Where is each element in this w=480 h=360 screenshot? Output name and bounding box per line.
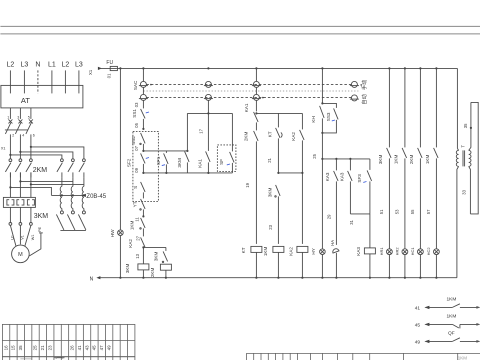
button SF1: [165, 151, 167, 153]
svg-text:41: 41: [415, 305, 421, 311]
svg-text:41: 41: [77, 345, 82, 350]
contactor 3KM star short bar: [60, 229, 86, 231]
motor lead wires: [10, 226, 16, 246]
node wire branch to KT/KA2: [255, 112, 257, 114]
svg-text:51: 51: [379, 209, 384, 214]
node 25: [321, 133, 323, 159]
wire crossover phase2 to reactor2: [20, 180, 73, 182]
reactor ZOB-45 label: [82, 194, 86, 197]
switch SS2: [141, 133, 146, 144]
coil KA3: [369, 214, 371, 248]
svg-text:L3: L3: [21, 61, 29, 68]
selector SAC contacts column 3: [253, 81, 259, 87]
node 07: [142, 150, 144, 152]
svg-text:35: 35: [18, 345, 23, 350]
lamp HR2: [402, 249, 408, 255]
svg-text:3KM: 3KM: [153, 252, 158, 262]
node 13: [142, 247, 144, 264]
contact KA3 hold: [349, 159, 351, 171]
svg-text:25: 25: [33, 345, 38, 350]
wires thermal relay to motor terminals: [9, 207, 11, 222]
svg-text:KA2: KA2: [291, 132, 296, 141]
svg-text:43: 43: [84, 345, 89, 350]
svg-text:5: 5: [28, 115, 30, 119]
contactor 3KM star contacts: [56, 214, 64, 230]
svg-text:3KM: 3KM: [34, 213, 49, 220]
svg-text:29: 29: [326, 214, 331, 219]
svg-text:23: 23: [268, 224, 273, 229]
wire 31 junction: [350, 213, 370, 215]
svg-text:31: 31: [349, 219, 354, 224]
contact 1KM NC: [141, 218, 146, 228]
svg-text:19: 19: [245, 182, 250, 187]
switch SS1: [141, 109, 146, 119]
contact KA2 auto: [301, 113, 303, 129]
svg-text:3KM: 3KM: [177, 158, 182, 168]
svg-text:L1: L1: [48, 61, 56, 68]
svg-text:Z0B-45: Z0B-45: [86, 194, 106, 200]
coil 2KM: [160, 264, 171, 270]
coil 3KM: [138, 264, 149, 270]
border frame line upper: [0, 25, 480, 27]
svg-text:N: N: [35, 61, 40, 68]
contact 1KM for lamp HC2: [435, 68, 437, 147]
wire measuring loop right: [470, 102, 478, 213]
svg-text:45: 45: [92, 345, 97, 350]
release YT: [141, 199, 146, 209]
contact KA3 alarm: [335, 159, 337, 171]
svg-text:1KM: 1KM: [458, 355, 468, 360]
wire 17 sub-bus: [187, 112, 232, 114]
svg-text:57: 57: [426, 209, 431, 214]
reactor tap leader line: [51, 194, 84, 196]
wire 53 label: [404, 158, 406, 248]
contact KA1: [254, 112, 259, 122]
contact 3KM NC interlock: [165, 247, 167, 251]
svg-text:KT: KT: [241, 247, 246, 253]
control bus L (wire 01): [117, 67, 458, 69]
svg-text:KA3: KA3: [356, 247, 361, 256]
svg-text:33: 33: [461, 189, 466, 194]
button SF2: [141, 153, 146, 163]
svg-text:SF2: SF2: [126, 158, 131, 167]
svg-text:2KM: 2KM: [33, 167, 48, 174]
svg-text:KA3: KA3: [325, 172, 330, 181]
motor M: [12, 245, 30, 263]
starting reactors ZOB-45 windings: [60, 186, 62, 208]
contact KA1 auto: [207, 100, 209, 113]
svg-text:21: 21: [40, 345, 45, 350]
svg-text:HY: HY: [311, 248, 316, 254]
svg-text:09: 09: [134, 167, 139, 172]
svg-text:23: 23: [47, 345, 52, 350]
lamp HY: [321, 159, 323, 249]
coil KT time relay: [251, 246, 262, 252]
svg-text:1KM: 1KM: [425, 155, 430, 165]
wire 25 sub-bus: [322, 158, 370, 160]
selector switch SAC dashed line manual: [146, 83, 351, 85]
svg-text:47: 47: [99, 345, 104, 350]
svg-text:05: 05: [134, 122, 139, 127]
node 35: [469, 102, 471, 150]
wire control bus to transformer: [456, 68, 458, 148]
wire fan-out phase 3: [31, 147, 84, 159]
svg-text:HA: HA: [330, 240, 335, 246]
button SF3: [369, 159, 371, 170]
wire crossover phase1 to reactor tap: [10, 187, 51, 195]
svg-text:X1: X1: [88, 69, 93, 75]
dashed box button SF: [217, 145, 236, 172]
svg-text:55: 55: [410, 209, 415, 214]
svg-text:26: 26: [70, 345, 75, 350]
fuse FU: [99, 67, 117, 69]
svg-text:13: 13: [135, 253, 140, 258]
svg-text:QF: QF: [448, 330, 455, 336]
svg-text:SS1: SS1: [132, 109, 137, 118]
svg-text:SF1: SF1: [156, 156, 161, 165]
svg-text:25: 25: [312, 153, 317, 158]
transformer T core: [462, 150, 464, 166]
wire 51 label: [388, 158, 390, 248]
svg-text:KA1: KA1: [244, 103, 249, 112]
border frame line lower: [0, 33, 480, 35]
svg-text:HW: HW: [110, 229, 115, 237]
svg-text:W1: W1: [31, 235, 35, 241]
svg-text:49: 49: [415, 339, 421, 345]
wire node 07 branch: [143, 150, 187, 152]
svg-text:KA3: KA3: [339, 172, 344, 181]
wire column KA1-2KM: [255, 68, 257, 81]
transformer primary top lead: [457, 148, 458, 150]
svg-text:16: 16: [3, 345, 8, 350]
table annotation marks: [20, 358, 31, 360]
selector SAC contacts column 4: [351, 81, 357, 87]
svg-text:T: T: [460, 145, 465, 148]
svg-text:1KM: 1KM: [446, 313, 456, 319]
svg-text:53: 53: [395, 209, 400, 214]
svg-text:KH: KH: [311, 116, 316, 122]
svg-text:SAC: SAC: [133, 80, 138, 90]
svg-text:3KM: 3KM: [267, 188, 272, 198]
contact 3KM NC: [276, 185, 281, 196]
svg-text:21: 21: [267, 157, 272, 162]
wire fan-out phase 2: [20, 152, 73, 159]
node 11: [142, 215, 144, 217]
lamp HW power indicator: [119, 68, 121, 229]
ground PE wire: [39, 232, 43, 234]
svg-text:V1: V1: [21, 235, 25, 240]
svg-text:S: S: [133, 186, 138, 189]
selector switch SAC dashed line auto: [146, 96, 351, 98]
svg-text:03: 03: [134, 102, 139, 107]
contact KH thermal relay: [320, 106, 325, 118]
terminal strip table: [2, 324, 135, 356]
fuse FU arrow: [98, 67, 102, 70]
svg-text:L3: L3: [75, 61, 83, 68]
svg-text:2KM: 2KM: [150, 268, 155, 278]
svg-text:HR2: HR2: [394, 247, 399, 256]
svg-text:SF3: SF3: [357, 174, 362, 183]
thermal overload heater elements: [7, 200, 14, 205]
switch SS3 bypass: [322, 103, 336, 108]
wire 57 label: [435, 158, 437, 248]
svg-text:49: 49: [106, 345, 111, 350]
dashed enclosure box SS2/SF2/S/YT: [133, 131, 159, 201]
selector SAC contacts column 1: [142, 68, 144, 81]
lamp HC2: [434, 249, 440, 255]
node 09: [142, 172, 144, 174]
svg-text:6: 6: [33, 133, 35, 137]
svg-text:FU: FU: [106, 60, 113, 66]
transformer primary bottom lead to N bus: [457, 166, 459, 277]
svg-text:2KM: 2KM: [409, 155, 414, 165]
selector SAC contacts column 2: [205, 81, 211, 87]
wire 19 label: [255, 141, 257, 244]
transformer T windings: [456, 150, 458, 166]
selector switch SAC mechanical link line: [143, 90, 358, 92]
switch S: [141, 182, 146, 192]
button SF: [231, 113, 233, 151]
svg-text:KT: KT: [267, 131, 272, 137]
svg-text:27: 27: [135, 235, 140, 240]
contact 2KM aux: [254, 131, 259, 141]
wire crossover phase3 to reactor3: [31, 183, 84, 185]
lower table top edge: [246, 352, 480, 354]
svg-text:N: N: [90, 276, 94, 282]
svg-text:1KM: 1KM: [263, 247, 268, 257]
contact 3KM for lamp HR1: [388, 68, 390, 147]
svg-text:SS2: SS2: [131, 136, 136, 145]
contact 1KM for lamp HR2: [404, 68, 406, 147]
svg-text:SS3: SS3: [326, 112, 331, 121]
svg-text:YT: YT: [132, 201, 137, 207]
svg-text:L2: L2: [7, 61, 15, 68]
svg-text:KA1: KA1: [197, 159, 202, 168]
wire 55 label: [419, 158, 421, 248]
svg-text:HC1: HC1: [410, 247, 415, 256]
circuit breaker QF tie bar: [5, 129, 28, 131]
contact 2KM for lamp HC1: [419, 68, 421, 147]
svg-text:11: 11: [134, 217, 139, 222]
svg-text:3KM: 3KM: [378, 155, 383, 165]
svg-text:45: 45: [415, 322, 421, 328]
wire 33 label: [469, 166, 471, 214]
thermal overload relay KH box: [3, 197, 35, 207]
autotransformer AT box: [1, 85, 83, 108]
svg-text:X1: X1: [1, 146, 6, 150]
contactor 2KM main contacts: [9, 159, 12, 162]
svg-text:35: 35: [463, 123, 468, 128]
svg-text:2: 2: [12, 133, 14, 137]
svg-text:3KM: 3KM: [125, 264, 130, 274]
wire column KH: [321, 68, 323, 103]
svg-text:01: 01: [106, 73, 111, 78]
coil KA2: [297, 246, 308, 252]
svg-text:1: 1: [7, 115, 9, 119]
svg-text:1KM: 1KM: [393, 155, 398, 165]
lamp HC1: [418, 249, 424, 255]
contact KT timed NC: [277, 113, 279, 127]
wire fan-out phase 1: [10, 155, 62, 159]
svg-text:HC2: HC2: [426, 247, 431, 256]
coil 1KM: [273, 246, 284, 252]
svg-text:17: 17: [198, 128, 203, 133]
svg-text:自动: 自动: [360, 94, 368, 104]
svg-text:07: 07: [134, 145, 139, 150]
svg-text:手动: 手动: [360, 80, 368, 90]
svg-text:AT: AT: [21, 96, 30, 105]
svg-text:M: M: [18, 252, 23, 258]
wire 2KM right poles to reactors: [61, 177, 63, 186]
contact KA2 NC: [141, 237, 146, 247]
svg-text:1KM: 1KM: [129, 221, 134, 231]
wire node 09 branch: [143, 172, 232, 174]
svg-text:2KM: 2KM: [243, 132, 248, 142]
svg-text:3: 3: [17, 115, 19, 119]
svg-text:15: 15: [11, 345, 16, 350]
svg-text:HR1: HR1: [379, 247, 384, 256]
svg-text:4: 4: [22, 133, 24, 137]
svg-text:KA2: KA2: [128, 239, 133, 248]
svg-text:SF: SF: [219, 159, 224, 165]
svg-text:KA2: KA2: [288, 247, 293, 256]
circuit breaker QF poles: [9, 108, 11, 119]
svg-text:1KM: 1KM: [446, 296, 456, 302]
wire left poles down to thermal relay: [9, 172, 11, 197]
svg-text:L2: L2: [62, 61, 70, 68]
lamp HR1: [387, 249, 393, 255]
svg-text:PE: PE: [38, 226, 42, 232]
node 05: [142, 128, 144, 130]
contact 3KM hold: [186, 113, 188, 150]
